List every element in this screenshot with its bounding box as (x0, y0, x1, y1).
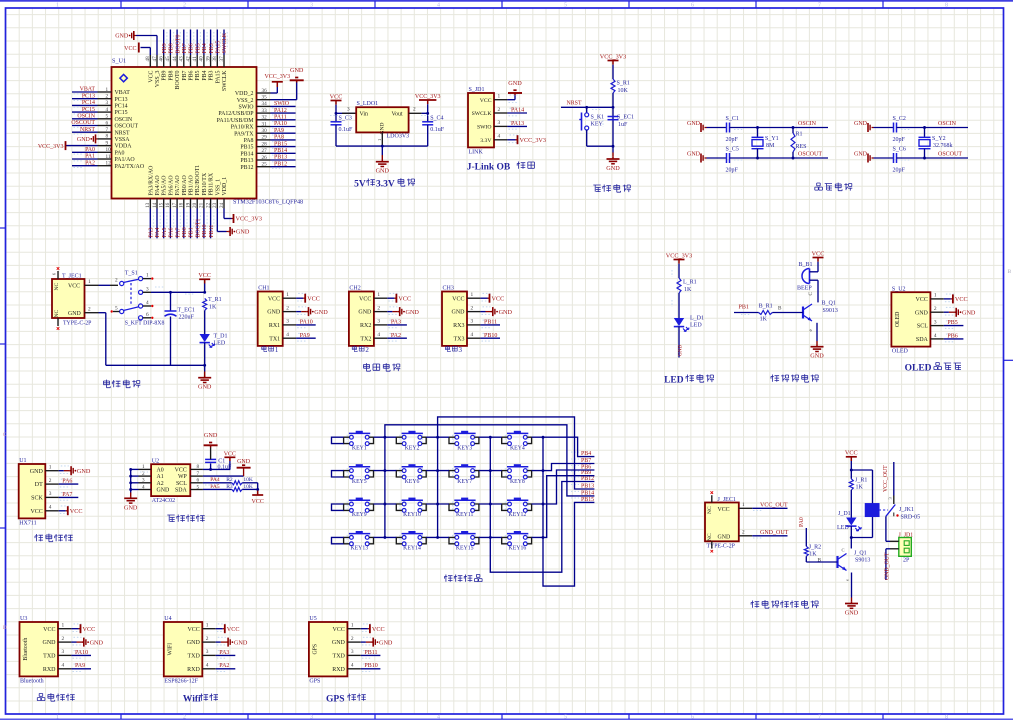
svg-text:20: 20 (192, 202, 198, 208)
svg-text:PB15: PB15 (274, 141, 287, 147)
svg-text:TYPE-C-2P: TYPE-C-2P (63, 321, 91, 327)
svg-text:TX3: TX3 (454, 336, 465, 342)
svg-text:VCC: VCC (83, 626, 96, 633)
svg-text:S_Y1: S_Y1 (765, 136, 779, 142)
svg-text:KEY1: KEY1 (352, 445, 367, 451)
svg-text:J_R2: J_R2 (809, 545, 821, 551)
svg-text:41: 41 (192, 56, 198, 62)
svg-text:VBAT: VBAT (80, 87, 96, 93)
svg-text:5: 5 (115, 306, 118, 312)
svg-text:PB1: PB1 (739, 305, 749, 311)
svg-text:4: 4 (934, 333, 937, 339)
svg-text:A1: A1 (157, 474, 164, 480)
svg-text:4: 4 (498, 134, 501, 140)
svg-text:20pF: 20pF (893, 137, 906, 143)
svg-text:KEY2: KEY2 (405, 445, 420, 451)
svg-text:2: 2 (377, 305, 380, 311)
svg-text:PB2/BOOT1: PB2/BOOT1 (195, 165, 201, 196)
svg-text:3.3V: 3.3V (376, 180, 395, 190)
svg-text:2: 2 (88, 306, 91, 312)
svg-text:GND: GND (379, 639, 393, 646)
svg-text:4: 4 (351, 663, 354, 669)
svg-text:GND: GND (314, 309, 328, 316)
svg-text:U5: U5 (309, 616, 316, 622)
svg-text:38: 38 (212, 56, 218, 62)
svg-text:GND: GND (290, 67, 304, 74)
svg-text:GND: GND (115, 34, 129, 40)
svg-text:VCC: VCC (30, 509, 42, 515)
svg-text:GPS: GPS (326, 695, 344, 705)
svg-text:VCC: VCC (718, 507, 730, 513)
svg-text:32.768k: 32.768k (933, 143, 953, 149)
svg-text:3: 3 (347, 107, 350, 113)
svg-text:20pF: 20pF (726, 168, 739, 174)
svg-text:PB11: PB11 (484, 319, 497, 325)
svg-text:BOOT1: BOOT1 (195, 218, 201, 237)
svg-text:SCL: SCL (176, 481, 187, 487)
svg-text:2: 2 (106, 94, 109, 100)
svg-text:4: 4 (206, 663, 209, 669)
svg-text:KEY14: KEY14 (403, 546, 421, 552)
svg-text:TX1: TX1 (269, 336, 280, 342)
svg-text:19: 19 (185, 202, 191, 208)
svg-text:2: 2 (351, 636, 354, 642)
svg-text:39: 39 (205, 56, 211, 62)
svg-text:GND: GND (198, 384, 212, 391)
svg-text:PA2: PA2 (85, 160, 95, 166)
svg-text:PB7: PB7 (182, 43, 188, 53)
svg-text:VCC: VCC (359, 296, 371, 302)
svg-text:VCC: VCC (252, 499, 264, 505)
svg-text:VCC: VCC (148, 70, 154, 82)
svg-text:NC: NC (54, 283, 60, 291)
svg-text:1: 1 (146, 273, 149, 279)
svg-text:4: 4 (62, 663, 65, 669)
svg-text:PB6: PB6 (189, 43, 195, 53)
svg-text:Bluetooth: Bluetooth (20, 678, 44, 684)
svg-text:PA3: PA3 (219, 650, 229, 656)
svg-text:PB11/RX: PB11/RX (209, 172, 215, 195)
svg-text:PB6: PB6 (947, 333, 957, 339)
svg-text:11: 11 (106, 154, 111, 160)
svg-text:VCC_3V3: VCC_3V3 (236, 216, 262, 223)
svg-text:LED: LED (690, 323, 702, 329)
svg-text:S_EC1: S_EC1 (617, 115, 634, 121)
svg-text:3: 3 (106, 100, 109, 106)
svg-text:1: 1 (377, 292, 380, 298)
svg-text:GPS: GPS (312, 644, 318, 655)
svg-text:PB10/TX: PB10/TX (202, 172, 208, 195)
svg-text:VCC: VCC (812, 250, 825, 257)
svg-text:1: 1 (498, 94, 501, 100)
svg-text:CH3: CH3 (443, 286, 454, 292)
svg-text:PA4: PA4 (210, 477, 220, 483)
svg-text:PB9: PB9 (162, 43, 168, 53)
svg-text:GND: GND (915, 310, 929, 316)
svg-text:VCC: VCC (70, 508, 83, 515)
svg-text:PB9: PB9 (162, 70, 168, 80)
svg-text:PA6/AO: PA6/AO (168, 175, 174, 196)
svg-text:GND: GND (687, 121, 701, 127)
svg-text:VCC: VCC (333, 627, 345, 633)
svg-text:VCC: VCC (372, 626, 385, 633)
svg-text:VCC_3V3: VCC_3V3 (264, 74, 290, 80)
svg-text:Vin: Vin (360, 111, 369, 117)
svg-text:13: 13 (145, 202, 151, 208)
svg-text:S_U1: S_U1 (112, 58, 126, 65)
svg-text:1: 1 (206, 623, 209, 629)
svg-text:4: 4 (437, 715, 440, 720)
svg-text:1K: 1K (760, 317, 768, 323)
svg-text:S_C2: S_C2 (893, 116, 906, 122)
svg-text:PB10: PB10 (484, 333, 497, 339)
svg-text:C: C (808, 292, 814, 296)
svg-text:GND: GND (204, 432, 218, 439)
svg-text:5: 5 (564, 715, 567, 720)
svg-text:PB8: PB8 (169, 43, 175, 53)
svg-text:28: 28 (262, 141, 268, 147)
svg-text:VCC_3V3: VCC_3V3 (600, 53, 626, 60)
svg-text:GND: GND (43, 640, 57, 646)
svg-text:ESP8266-12F: ESP8266-12F (164, 678, 198, 684)
svg-text:PB11: PB11 (364, 650, 377, 656)
svg-text:8: 8 (945, 715, 948, 720)
svg-text:KEY4: KEY4 (510, 445, 525, 451)
svg-text:4: 4 (49, 505, 52, 511)
svg-text:SWCLK: SWCLK (472, 111, 493, 117)
svg-text:1K: 1K (209, 305, 217, 311)
svg-text:S_KFT DIP-8X8: S_KFT DIP-8X8 (125, 321, 165, 327)
svg-text:OSCIN: OSCIN (798, 121, 817, 127)
svg-text:1K: 1K (856, 485, 864, 491)
svg-text:GND: GND (77, 137, 91, 143)
svg-text:22: 22 (205, 202, 211, 208)
svg-text:VCC_3V3: VCC_3V3 (415, 94, 441, 100)
svg-text:220uF: 220uF (179, 315, 195, 321)
svg-text:12: 12 (106, 161, 112, 167)
svg-text:2: 2 (934, 306, 937, 312)
svg-text:VCC: VCC (268, 296, 280, 302)
svg-text:PA0: PA0 (85, 147, 95, 153)
svg-text:R1: R1 (796, 132, 803, 138)
svg-text:CH1: CH1 (258, 286, 269, 292)
svg-text:NRST: NRST (80, 127, 95, 133)
svg-text:T_S1: T_S1 (125, 271, 138, 277)
svg-text:47: 47 (152, 56, 158, 62)
svg-text:CH2: CH2 (349, 286, 360, 292)
svg-text:VSSA: VSSA (115, 137, 131, 143)
svg-text:20pF: 20pF (726, 137, 739, 143)
svg-text:TXD: TXD (187, 654, 200, 660)
svg-text:3.3V: 3.3V (480, 138, 492, 144)
svg-text:PB12: PB12 (274, 161, 287, 167)
svg-text:KEY11: KEY11 (456, 512, 474, 518)
svg-text:BEEP: BEEP (797, 286, 812, 292)
svg-text:PC15: PC15 (115, 110, 128, 116)
svg-text:PB4: PB4 (202, 43, 208, 53)
svg-text:2: 2 (49, 478, 52, 484)
svg-text:1: 1 (106, 87, 109, 93)
svg-text:GPS: GPS (309, 678, 320, 684)
svg-text:S_U2: S_U2 (892, 286, 906, 292)
svg-text:43: 43 (179, 56, 185, 62)
svg-text:OSCOUT: OSCOUT (938, 152, 962, 158)
svg-text:PA2: PA2 (219, 663, 229, 669)
svg-text:34: 34 (262, 101, 268, 107)
svg-text:36: 36 (262, 88, 268, 94)
svg-text:SCK: SCK (31, 496, 43, 502)
svg-text:SDA: SDA (175, 488, 188, 494)
svg-text:A0: A0 (157, 468, 164, 474)
svg-text:S_C3: S_C3 (339, 116, 352, 122)
svg-text:7: 7 (818, 2, 821, 8)
svg-text:6: 6 (106, 120, 109, 126)
svg-text:KEY10: KEY10 (403, 512, 421, 518)
svg-text:PA0: PA0 (115, 150, 125, 156)
svg-text:RX1: RX1 (269, 323, 280, 329)
svg-text:VCC: VCC (307, 295, 320, 302)
svg-text:OSCOUT: OSCOUT (71, 120, 95, 126)
svg-text:U4: U4 (164, 616, 171, 622)
svg-text:5: 5 (564, 2, 567, 8)
svg-text:PA5: PA5 (210, 484, 220, 490)
svg-text:8: 8 (197, 464, 200, 470)
svg-text:3: 3 (310, 2, 313, 8)
svg-text:6: 6 (691, 2, 694, 8)
svg-text:OSCIN: OSCIN (115, 117, 133, 123)
svg-text:GND: GND (499, 309, 513, 316)
svg-text:VDDA: VDDA (115, 144, 133, 150)
svg-text:2: 2 (183, 2, 186, 8)
svg-text:10K: 10K (618, 88, 629, 94)
svg-text:GND: GND (236, 229, 250, 236)
svg-text:3: 3 (934, 319, 937, 325)
svg-text:PC14: PC14 (115, 104, 128, 110)
svg-text:TXD: TXD (333, 654, 346, 660)
svg-text:PA1: PA1 (85, 154, 95, 160)
svg-text:VCC: VCC (330, 93, 343, 100)
svg-text:VCC: VCC (187, 627, 199, 633)
svg-text:NC: NC (707, 533, 713, 541)
svg-text:PB3: PB3 (209, 70, 215, 80)
svg-text:PB3: PB3 (209, 43, 215, 53)
svg-text:Wifi: Wifi (183, 695, 201, 705)
svg-text:3: 3 (498, 120, 501, 126)
svg-text:S_C5: S_C5 (726, 147, 739, 153)
svg-text:PB13: PB13 (240, 158, 253, 164)
svg-text:S9013: S9013 (823, 308, 838, 314)
svg-text:OSCOUT: OSCOUT (798, 152, 822, 158)
svg-text:2P: 2P (903, 557, 910, 563)
svg-text:VDD_2: VDD_2 (235, 91, 254, 97)
svg-text:GND: GND (187, 640, 201, 646)
svg-text:31: 31 (262, 121, 268, 127)
svg-text:S9013: S9013 (855, 558, 870, 564)
svg-text:2: 2 (365, 346, 369, 354)
svg-text:6: 6 (691, 715, 694, 720)
svg-text:U1: U1 (19, 458, 26, 464)
svg-text:GND: GND (267, 310, 281, 316)
svg-text:VCC: VCC (845, 450, 858, 457)
svg-text:TYPE-C-2P: TYPE-C-2P (707, 544, 735, 550)
svg-text:PC14: PC14 (82, 100, 95, 106)
svg-text:PB6: PB6 (189, 70, 195, 80)
svg-text:AT24C02: AT24C02 (152, 498, 175, 504)
svg-text:SCL: SCL (917, 324, 928, 330)
svg-text:23: 23 (212, 202, 218, 208)
svg-text:Bluetooth: Bluetooth (23, 638, 29, 661)
svg-text:LED: LED (664, 376, 684, 386)
svg-text:VCC_OUT: VCC_OUT (760, 503, 788, 509)
svg-text:PB5: PB5 (195, 43, 201, 53)
svg-text:PB15: PB15 (240, 145, 253, 151)
svg-text:PA9: PA9 (75, 663, 85, 669)
svg-text:PA11: PA11 (274, 115, 287, 121)
svg-text:OLED: OLED (892, 349, 909, 355)
svg-text:GND: GND (157, 488, 171, 494)
svg-text:PA14: PA14 (511, 108, 524, 114)
svg-text:PA13: PA13 (511, 121, 524, 127)
svg-text:PA3: PA3 (149, 228, 155, 238)
svg-text:44: 44 (172, 56, 178, 62)
svg-text:PB14: PB14 (274, 148, 287, 154)
svg-text:PB12: PB12 (240, 165, 253, 171)
svg-text:PA8: PA8 (244, 138, 254, 144)
svg-text:VCC: VCC (492, 295, 505, 302)
svg-text:PC15: PC15 (82, 107, 95, 113)
svg-text:PB0/AO: PB0/AO (182, 174, 188, 195)
svg-text:GND: GND (606, 165, 620, 172)
svg-text:35: 35 (262, 95, 268, 101)
svg-text:VBAT: VBAT (115, 90, 131, 96)
svg-text:30: 30 (262, 128, 268, 134)
svg-text:OSCOUT: OSCOUT (115, 124, 139, 130)
svg-text:9: 9 (106, 140, 109, 146)
svg-text:J_Q1: J_Q1 (854, 551, 867, 557)
svg-text:DT: DT (35, 482, 43, 488)
svg-text:PB0: PB0 (182, 227, 188, 237)
svg-text:3: 3 (377, 319, 380, 325)
svg-text:KEY15: KEY15 (456, 546, 474, 552)
svg-text:SWIO: SWIO (274, 101, 290, 107)
svg-text:KEY9: KEY9 (352, 512, 367, 518)
svg-text:VCC_3V3: VCC_3V3 (38, 144, 64, 150)
svg-text:B_R1: B_R1 (759, 304, 773, 310)
svg-text:GND: GND (687, 152, 701, 158)
svg-text:OLED: OLED (895, 312, 901, 327)
svg-text:KEY: KEY (591, 122, 604, 128)
svg-text:GND: GND (68, 311, 82, 317)
svg-text:VCC_3V3: VCC_3V3 (666, 252, 692, 259)
svg-text:7: 7 (197, 471, 200, 477)
svg-text:J-Link OB: J-Link OB (467, 163, 511, 173)
svg-text:2: 2 (286, 305, 289, 311)
svg-text:L_D1: L_D1 (690, 316, 704, 322)
svg-text:1: 1 (88, 279, 91, 285)
svg-text:PA6: PA6 (169, 228, 175, 238)
svg-text:PB8: PB8 (168, 70, 174, 80)
svg-text:1: 1 (351, 623, 354, 629)
svg-text:RXD: RXD (332, 667, 345, 673)
svg-text:VCC: VCC (480, 98, 492, 104)
svg-text:C: C (3, 432, 7, 438)
svg-text:1: 1 (275, 346, 279, 354)
svg-text:KEY12: KEY12 (509, 512, 527, 518)
svg-text:3: 3 (206, 649, 209, 655)
svg-text:3: 3 (286, 319, 289, 325)
svg-text:J_JK1: J_JK1 (899, 507, 914, 513)
svg-text:3: 3 (459, 346, 463, 354)
svg-text:KEY7: KEY7 (457, 479, 472, 485)
svg-text:PA8: PA8 (274, 135, 284, 141)
svg-text:KEY6: KEY6 (405, 479, 420, 485)
svg-text:PB10: PB10 (364, 663, 377, 669)
svg-text:PA7: PA7 (62, 492, 72, 498)
svg-text:18: 18 (179, 202, 185, 208)
svg-text:3: 3 (146, 286, 149, 292)
svg-text:6: 6 (197, 478, 200, 484)
svg-text:VCC: VCC (955, 296, 968, 303)
svg-text:BOOT0: BOOT0 (175, 34, 181, 53)
svg-text:8M: 8M (766, 143, 775, 149)
svg-text:PA0: PA0 (799, 517, 805, 527)
svg-text:1: 1 (934, 293, 937, 299)
svg-text:SWIO: SWIO (238, 105, 254, 111)
svg-text:GND: GND (718, 535, 732, 541)
svg-text:42: 42 (185, 56, 191, 62)
svg-text:KEY3: KEY3 (457, 445, 472, 451)
svg-text:T_R1: T_R1 (208, 297, 222, 303)
svg-text:PB5: PB5 (195, 70, 201, 80)
svg-text:LED: LED (214, 341, 226, 347)
svg-text:1: 1 (62, 623, 65, 629)
svg-text:1K: 1K (809, 552, 817, 558)
svg-text:GND: GND (77, 468, 91, 475)
svg-text:KEY13: KEY13 (350, 546, 368, 552)
svg-text:HX711: HX711 (19, 520, 36, 526)
svg-text:PA9: PA9 (300, 333, 310, 339)
svg-text:GND: GND (854, 152, 868, 158)
svg-text:0.1uF: 0.1uF (339, 127, 354, 133)
svg-text:NRST: NRST (115, 130, 130, 136)
svg-text:14: 14 (152, 202, 158, 208)
svg-text:LED: LED (837, 525, 849, 531)
svg-text:GND: GND (124, 504, 138, 511)
svg-text:6: 6 (52, 273, 57, 275)
svg-text:4: 4 (286, 332, 289, 338)
svg-text:VSS_3: VSS_3 (155, 70, 161, 87)
svg-text:40: 40 (199, 56, 205, 62)
svg-text:3: 3 (351, 649, 354, 655)
svg-text:S_JD1: S_JD1 (469, 87, 485, 93)
svg-text:SWCLK: SWCLK (222, 70, 228, 91)
svg-text:PA10/RX: PA10/RX (231, 125, 254, 131)
svg-text:J_D1: J_D1 (838, 511, 851, 517)
svg-text:PA3: PA3 (391, 319, 401, 325)
svg-text:NRST: NRST (567, 101, 582, 107)
svg-text:PA5: PA5 (162, 228, 168, 238)
svg-text:PB5: PB5 (947, 320, 957, 326)
svg-text:20pF: 20pF (893, 168, 906, 174)
svg-text:VCC_3V3: VCC_3V3 (520, 137, 546, 144)
svg-text:33: 33 (262, 108, 268, 114)
svg-text:5V: 5V (354, 180, 366, 190)
svg-text:4: 4 (146, 300, 149, 306)
svg-text:PA4: PA4 (155, 228, 161, 238)
svg-text:PA4/AO: PA4/AO (155, 175, 161, 196)
svg-text:VCC: VCC (175, 468, 187, 474)
svg-text:RX2: RX2 (360, 323, 371, 329)
